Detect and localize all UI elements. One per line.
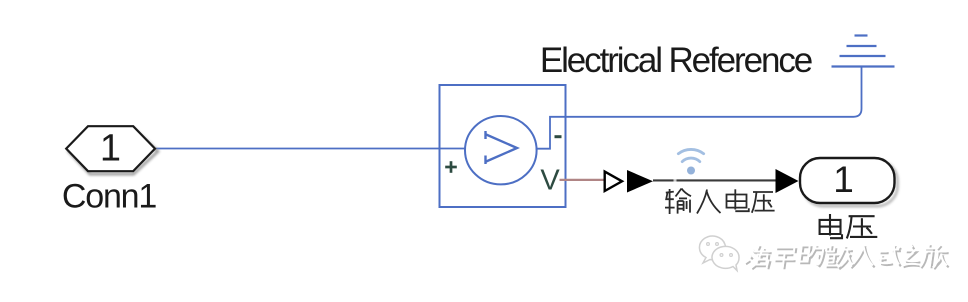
- 电: [727, 189, 749, 211]
- svg-text:1: 1: [833, 159, 854, 200]
- label Conn1: [62, 178, 156, 216]
- wireless logging badge: [678, 149, 703, 174]
- signal wire to outport: [653, 179, 790, 181]
- signal name 输入电压 glyphs: [665, 189, 775, 215]
- wire hexagon port to sensor + input: [156, 148, 465, 150]
- voltage sensor V glyph (rotated V): [485, 131, 517, 164]
- signal label box 输入电压 background: [674, 178, 677, 183]
- 压: [847, 216, 878, 238]
- port Conn1 pin number 1: [100, 128, 121, 170]
- physical signal wire (dark red) from V port: [560, 179, 605, 181]
- minus port label: [555, 135, 562, 138]
- svg-text:1: 1: [100, 128, 121, 170]
- 输: [665, 189, 691, 215]
- voltage sensor block U1 outline: [440, 85, 566, 207]
- plus port label: [445, 161, 457, 173]
- port Conn1 hexagon: [66, 126, 155, 171]
- converter filled triangle: [627, 170, 653, 193]
- wire circle to minus port bend: [536, 117, 566, 149]
- outport label 电压 glyphs: [820, 214, 878, 238]
- V output port label: [540, 165, 560, 197]
- label Electrical Reference: [540, 41, 812, 80]
- wire minus port to electrical reference: [566, 67, 862, 117]
- voltage sensor circle: [465, 116, 537, 184]
- PS-Simulink converter hollow triangle: [605, 172, 622, 191]
- 压: [752, 192, 775, 213]
- 电: [820, 214, 842, 238]
- port Conn1 hexagon shadow: [69, 129, 158, 174]
- arrowhead into outport: [776, 169, 799, 193]
- outport block 1: [800, 158, 895, 203]
- outport number 1: [833, 159, 854, 200]
- watermark wechat logo: [699, 236, 739, 270]
- 入: [697, 190, 721, 214]
- outport block shadow: [803, 161, 898, 206]
- ground electrical reference symbol: [832, 36, 895, 67]
- svg-text:Electrical Reference: Electrical Reference: [540, 41, 812, 80]
- svg-text:Conn1: Conn1: [62, 178, 156, 216]
- svg-text:V: V: [540, 165, 560, 197]
